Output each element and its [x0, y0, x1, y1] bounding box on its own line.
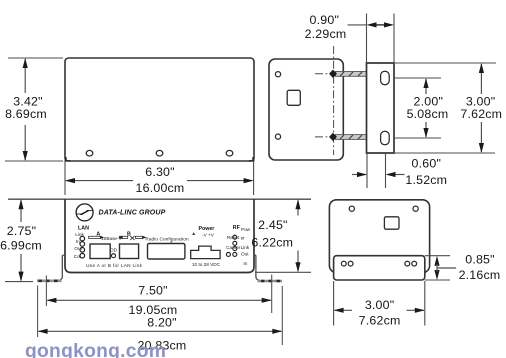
leader rail B: [119, 236, 127, 238]
LAN LED circles: [80, 236, 85, 241]
front view: right flange edge: [254, 255, 260, 280]
svg-text:OD: OD: [110, 248, 118, 253]
plate slot top: [381, 71, 390, 85]
svg-text:Power: Power: [198, 226, 214, 232]
svg-text:3.00": 3.00": [365, 298, 395, 312]
plate top/bottom extension lines: [394, 63, 496, 153]
dim 0.85" extension lines: [425, 256, 450, 280]
top view right corner tab mark: [249, 157, 255, 161]
front view: left flange edge: [59, 255, 66, 280]
front view: left foot band: [37, 279, 62, 282]
svg-text:7.62cm: 7.62cm: [460, 107, 502, 121]
svg-text:er: er: [241, 235, 246, 240]
svg-text:7.50": 7.50": [138, 283, 168, 297]
dim 3.42" extension line bottom: [5, 160, 63, 162]
leader rail radio: [135, 236, 142, 238]
svg-text:DATA-LINC GROUP: DATA-LINC GROUP: [99, 210, 166, 217]
rear view hole left: [349, 206, 354, 211]
front view: top edge with extension lines: [8, 198, 311, 200]
svg-text:2.75": 2.75": [7, 224, 37, 238]
screw 1 head: [329, 70, 337, 78]
side view hole top: [275, 72, 280, 77]
svg-text:6.99cm: 6.99cm: [0, 239, 42, 253]
dim 8.20" arrow right: [272, 329, 282, 334]
label -V +V: [192, 232, 195, 235]
dim 0.85" arrows: [434, 256, 439, 266]
svg-text:0.85": 0.85": [465, 252, 495, 266]
leader rail A: [89, 236, 101, 238]
dim 2.45" arrow up: [295, 199, 300, 209]
dim 7.50" extension lines: [45, 276, 47, 307]
top view hole right: [226, 150, 233, 156]
svg-text:1.52cm: 1.52cm: [405, 173, 447, 187]
rear view hole right: [413, 206, 418, 211]
dim 0.90" extension lines up: [367, 14, 395, 64]
svg-text:2.29cm: 2.29cm: [305, 27, 347, 41]
vertical centerline dash-dot: [333, 46, 335, 155]
top view hole left: [86, 150, 93, 156]
dim 6.30" extension line left: [64, 161, 66, 195]
svg-text:2.16cm: 2.16cm: [459, 268, 501, 282]
svg-text:8.20": 8.20": [147, 316, 177, 330]
svg-text:0.60": 0.60": [412, 157, 442, 171]
screw 2 head: [329, 133, 337, 141]
dim 7.50" dimension line: [47, 299, 270, 301]
dim 0.90" leader + arrows: [348, 24, 367, 26]
dim 8.20" dimension line: [39, 330, 282, 332]
screw centerline top: [315, 73, 378, 75]
svg-text:RF: RF: [233, 225, 241, 231]
svg-text:0.90": 0.90": [310, 13, 340, 27]
side view hole bottom: [275, 134, 280, 139]
dim 2.75" dimension line: [20, 200, 22, 280]
dim 2.75" arrow down: [18, 272, 23, 282]
svg-text:6.30": 6.30": [145, 165, 175, 179]
rear view: outline: [329, 200, 429, 273]
svg-text:Pow: Pow: [241, 227, 251, 232]
screw centerline bottom: [315, 136, 378, 138]
dim 2.00": [425, 79, 427, 137]
connector B: [120, 244, 139, 259]
dim text 6.30": [133, 175, 187, 194]
dim 3.42" arrow down: [23, 151, 28, 161]
dim 0.85" leader: [437, 267, 456, 269]
svg-text:8.69cm: 8.69cm: [5, 107, 47, 121]
logo DATA-LINC circle: [76, 204, 93, 221]
rear view square cutout: [384, 217, 399, 229]
svg-text:5.08cm: 5.08cm: [407, 107, 449, 121]
svg-text:-V +V: -V +V: [202, 233, 215, 238]
dim 0.60" extension lines: [367, 153, 386, 188]
svg-text:Use A or B for LAN Link: Use A or B for LAN Link: [86, 263, 142, 268]
svg-text:In: In: [76, 239, 80, 244]
power connector: [191, 246, 220, 259]
screw 2 shaft: [336, 135, 368, 140]
svg-text:6.22cm: 6.22cm: [251, 235, 293, 249]
top view left corner tab mark: [65, 157, 71, 161]
dim 2.45" dimension line: [297, 200, 299, 271]
svg-text:7.62cm: 7.62cm: [359, 313, 401, 327]
top view hole center: [156, 150, 163, 156]
svg-text:10 to 28 VDC: 10 to 28 VDC: [192, 262, 221, 267]
dim 3.00" bottom extension lines: [334, 281, 425, 326]
svg-text:gongkong.com: gongkong.com: [25, 341, 166, 358]
svg-text:Link: Link: [241, 245, 250, 250]
connector A: [90, 244, 110, 259]
svg-text:2.45": 2.45": [258, 218, 288, 232]
screw 1 shaft: [336, 72, 368, 77]
plate slot bottom: [381, 131, 390, 145]
svg-text:Radio Configuration: Radio Configuration: [145, 237, 189, 242]
front view: right foot band: [258, 280, 283, 283]
slot center extension lines: [394, 78, 441, 138]
connector DB9: [148, 244, 185, 260]
dim 7.50" arrow right: [262, 298, 272, 303]
rear view flange: [334, 256, 425, 280]
RF LED circles: [233, 235, 237, 239]
dim 2.45" extension line bottom: [255, 271, 311, 273]
dim 6.30" arrow right: [244, 178, 254, 183]
svg-text:10Base-T: 10Base-T: [101, 236, 121, 241]
front view: panel outline: [65, 199, 254, 272]
dim 7.50" arrow left: [46, 298, 56, 303]
dim 3.42" extension line top: [8, 57, 63, 59]
dim 8.20" extension lines: [37, 286, 39, 338]
logo swoosh: [76, 213, 83, 215]
dim 3.00" bottom arrows: [335, 309, 352, 311]
svg-text:16.00cm: 16.00cm: [136, 181, 185, 195]
dim 8.20" arrow left: [38, 329, 48, 334]
svg-text:LAN: LAN: [78, 225, 89, 231]
svg-text:In: In: [243, 261, 247, 266]
dim 3.42" dimension line: [24, 59, 26, 160]
side view square cutout: [287, 90, 300, 105]
dim 2.45" arrow down: [295, 262, 300, 272]
side view: device outline: [269, 59, 343, 160]
dim 6.30" arrow left: [65, 178, 75, 183]
dim 6.30" dimension line: [66, 180, 253, 182]
dim 2.75" arrow up: [18, 199, 23, 209]
dim 0.60" arrows: [352, 174, 366, 176]
bracket plate: [367, 63, 395, 153]
leader cross: [130, 236, 134, 240]
dim 2.75" extension line bottom: [5, 281, 33, 283]
flange holes: [341, 261, 346, 266]
top view: enclosure outline: [65, 58, 254, 161]
dim 3.42" arrow up: [23, 58, 28, 68]
dim 6.30" extension line right: [253, 161, 255, 195]
svg-text:Out: Out: [241, 252, 249, 257]
dim 3.00" vertical: [480, 64, 482, 152]
